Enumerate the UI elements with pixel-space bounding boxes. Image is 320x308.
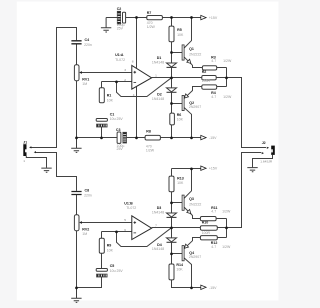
node top rail R5 [170,16,173,19]
transistor Q1 emitter arrow [187,59,191,63]
wire top rail segment C2 to R7 [126,17,147,19]
svg-text:1M: 1M [82,232,87,236]
transistor Q1 base bar [182,45,184,60]
diode D3 [167,213,177,217]
potentiometer RV2 body [74,215,79,231]
svg-text:C2: C2 [117,7,122,11]
resistor R1 [99,88,104,103]
svg-text:C8: C8 [85,189,90,193]
svg-text:+15V: +15V [209,16,218,20]
resistor R14 [169,264,174,280]
diode D2 [167,88,177,92]
wire op-amp B pin 6 [102,231,132,233]
svg-text:10K: 10K [177,118,184,122]
svg-text:10K: 10K [176,267,183,271]
op-amp U1:B [132,216,152,240]
wire C8 to RV2 [76,195,78,215]
node rail Q2 collector [190,137,193,140]
wire op-amp B pin 5 from RV2 wiper [81,222,132,224]
svg-text:J2: J2 [262,141,266,145]
svg-text:10K: 10K [177,33,184,37]
svg-text:R8: R8 [146,129,151,133]
svg-text:Q3: Q3 [189,197,194,201]
wire feedback zigzag A [117,78,172,97]
transistor Q2 emitter arrow [184,94,188,98]
svg-text:Q1: Q1 [189,47,194,51]
wire J2 sleeve to ground [253,155,273,167]
capacitor C4 [71,41,81,44]
power arrow +15V bottom channel [201,166,206,170]
capacitor C3 negative plate [123,132,126,143]
resistor R2 [202,76,216,80]
wire R9 top corner [101,232,103,239]
svg-text:TL072: TL072 [126,206,136,210]
transistor Q3 base bar [182,195,184,210]
wire Q3 base [172,202,183,204]
connector J1 [23,144,36,156]
wire R12 right to bus [217,237,226,239]
node Q3 base tap [170,202,173,205]
svg-text:4.7: 4.7 [211,210,216,214]
capacitor C3 positive plate [117,132,121,143]
ground J2 sleeve [247,168,257,172]
svg-text:R10: R10 [202,220,209,224]
wire C5 bottom to ground node [77,277,102,288]
resistor R9 [99,238,104,253]
svg-text:1/2W: 1/2W [222,210,231,214]
wire R6 bottom to -15V rail [171,125,173,138]
resistor R5 [169,26,174,42]
wire R9 to C5 [101,253,103,268]
node pin2 feedback [115,81,118,84]
svg-text:3: 3 [124,68,126,72]
svg-text:1N4148: 1N4148 [152,247,164,251]
svg-text:1N4148: 1N4148 [152,60,164,64]
ground bottom rail [71,288,81,303]
svg-text:1: 1 [23,159,25,163]
svg-text:2N2222: 2N2222 [189,53,201,57]
svg-text:25V: 25V [117,26,124,30]
node rail R6 [170,137,173,140]
node top rail pin8 [135,16,138,19]
svg-text:1/2W: 1/2W [146,148,155,152]
wire bottom channel output to J2 ring [227,153,262,228]
power arrow +15V top [201,15,206,19]
svg-text:1/2W: 1/2W [147,25,156,29]
canvas background [17,2,279,301]
wire J1 sleeve to ground [26,156,46,168]
wire Q4 base [172,253,183,255]
wire R5 top stub [171,18,173,27]
svg-text:R14: R14 [176,263,183,267]
svg-text:R5: R5 [177,28,182,32]
wire RV1 bottom to ground rail [76,81,78,138]
diode D4 [167,238,177,242]
potentiometer RV1 wiper arrow [79,71,82,74]
wire V- stub op-amp pin 4 [136,87,138,138]
resistor R7 [147,16,163,20]
wire C4 to RV1 [76,44,78,64]
node bus A [225,77,228,80]
wire Q3 collector [184,169,192,199]
svg-text:U1:B: U1:B [124,202,133,206]
svg-text:RV1: RV1 [82,78,89,82]
svg-text:4: 4 [133,93,135,97]
transistor Q4 emitter arrow [184,244,188,248]
wire R14 bottom to -15V rail [172,280,201,288]
node Q4 base tap [170,253,173,256]
wire D2 to R6 [171,92,173,113]
resistor R12 [200,236,217,240]
wire output bus top channel [226,68,228,87]
transistor Q2 base bar [182,95,184,110]
wire Q4 collector to -15V rail [184,258,192,288]
resistor R4 [202,85,217,89]
op-amp U1:A [132,65,152,89]
wire -15V rail segment C3 to R8 [127,137,146,139]
svg-text:4.7: 4.7 [211,59,216,63]
wire op-amp A pin 2 [102,81,132,83]
svg-text:2N2907: 2N2907 [189,255,201,259]
capacitor C2 negative plate [117,11,120,24]
svg-text:TL072: TL072 [115,58,125,62]
wire Q1 base [172,52,183,54]
svg-text:1N4148: 1N4148 [152,211,164,215]
svg-text:2N2222: 2N2222 [189,203,201,207]
node pin6 feedback [115,231,118,234]
resistor R3 [202,66,216,70]
node rail ground RV1 [75,137,78,140]
svg-text:1N4148: 1N4148 [152,97,164,101]
wire top rail segment ground to C2 [106,17,117,19]
svg-text:7: 7 [155,224,157,228]
wire D1 to D2 through output node [171,68,173,89]
wire RV2 bottom to ground node [76,231,78,288]
node rail pin4 [135,137,138,140]
wire -15V rail segment ground to C3 [77,137,118,139]
wire R3 right to bus [217,67,227,69]
node output B diode junction [170,227,173,230]
svg-text:220n: 220n [84,194,92,198]
resistor R8 [145,135,160,140]
svg-text:1.64SJR: 1.64SJR [260,159,273,163]
svg-text:25V: 25V [117,147,124,151]
svg-text:10u 25V: 10u 25V [110,269,124,273]
node Q1 base tap [170,51,173,54]
transistor Q3 emitter arrow [187,210,191,214]
svg-text:RV2: RV2 [82,228,89,232]
svg-text:R1: R1 [107,94,112,98]
wire top channel output to J2 tip [227,78,267,148]
wire D3 to D4 through output node [171,218,173,239]
svg-text:1/2W: 1/2W [222,245,231,249]
wire Q2 emitter to R4 [184,87,202,99]
wire R4 right to bus [217,86,227,88]
svg-text:-15V: -15V [209,136,217,140]
potentiometer RV1 body [74,65,79,81]
svg-text:4.7: 4.7 [211,245,216,249]
svg-text:R7: R7 [147,11,152,15]
wire C1 bottom stem [101,127,103,138]
ground top rail [101,18,111,33]
capacitor C1 negative plate [97,124,107,127]
wire Q4 emitter to R12 [184,238,201,250]
svg-text:D3: D3 [157,206,162,210]
wire top rail segment R7 to +15V arrow [163,17,201,19]
svg-text:10K: 10K [107,99,114,103]
wire V+ stub to op-amp pin 8 [136,18,138,68]
wire D4 to R14 [171,242,173,264]
svg-text:R13: R13 [177,176,184,180]
svg-text:1: 1 [155,74,157,78]
node Q2 base tap [170,102,173,105]
capacitor C2 positive plate [123,12,126,23]
wire R11 right to bus [216,218,226,220]
svg-text:100R: 100R [202,79,211,83]
svg-text:10K: 10K [177,181,184,185]
svg-text:2: 2 [124,78,126,82]
svg-text:10u 25V: 10u 25V [110,117,124,121]
svg-text:C4: C4 [85,38,90,42]
capacitor C5 positive plate [96,269,107,272]
wire R13 top stub [171,169,173,177]
svg-text:U1:A: U1:A [115,53,124,57]
svg-text:-15V: -15V [209,286,217,290]
wire op-amp A output row [152,77,202,79]
wire bottom +15V rail [172,168,201,170]
node bottom rail Q4 collector [190,287,193,290]
svg-text:R9: R9 [107,244,112,248]
transistor Q4 base bar [182,246,184,261]
wire R5 bottom to D1 [171,42,173,63]
wire J1 ring down to C8 [35,153,77,191]
wire Q1 emitter to R3 [184,57,203,68]
svg-text:10K: 10K [107,249,114,253]
ground J1 sleeve [41,168,51,172]
svg-text:C3: C3 [116,128,121,132]
wire R10 right to bus [217,227,226,229]
potentiometer RV2 wiper arrow [79,221,82,224]
svg-text:6: 6 [124,228,126,232]
wire Q2 base [172,103,183,105]
svg-text:C5: C5 [110,264,115,268]
svg-text:2N2907: 2N2907 [189,105,201,109]
resistor R6 [170,113,175,125]
node output A diode junction [170,77,173,80]
svg-text:+15V: +15V [209,167,218,171]
wire Q1 collector [184,18,192,49]
capacitor C5 negative plate [97,274,107,277]
node bottom rail Q3 collector [190,168,193,171]
svg-text:C1: C1 [110,113,115,117]
wire Q2 collector to -15V rail [184,107,192,137]
svg-text:J1: J1 [23,140,27,144]
wire R1 top corner [101,82,103,88]
connector J2 [262,146,275,155]
wire output bus bottom channel [226,219,228,238]
power arrow -15V bottom [201,285,206,289]
diode D1 [167,63,177,67]
svg-text:1/2W: 1/2W [223,59,232,63]
svg-text:R2: R2 [202,70,207,74]
ground mid rail [71,138,81,153]
wire -15V rail segment R8 to arrow [161,137,201,139]
svg-text:100R: 100R [202,231,211,235]
wire op-amp B output row [152,227,201,229]
svg-text:1/2W: 1/2W [223,95,232,99]
resistor R11 [200,217,216,221]
svg-text:5: 5 [124,218,126,222]
power arrow -15V top channel [201,135,206,139]
svg-text:4.7: 4.7 [211,95,216,99]
wire R2 right to bus [216,77,226,79]
svg-text:R6: R6 [177,113,182,117]
wire R13 bottom to D3 [171,192,173,213]
wire J1 tip up and over to C4 [31,28,77,148]
resistor R10 [200,226,217,231]
capacitor C8 [71,192,81,195]
wire Q3 emitter to R11 [184,207,201,219]
capacitor C1 positive plate [96,119,107,122]
node rail C1 [100,137,103,140]
wire op-amp A pin 3 from RV1 wiper [81,72,132,74]
resistor R13 [169,176,174,192]
node bus B [225,227,228,230]
svg-text:1M: 1M [82,82,87,86]
svg-text:8: 8 [132,60,134,64]
svg-text:D1: D1 [157,56,162,60]
svg-text:220n: 220n [84,43,92,47]
wire feedback zigzag B [117,228,172,247]
node bottom ground RV2 [75,287,78,290]
node top rail Q1 collector [190,16,193,19]
